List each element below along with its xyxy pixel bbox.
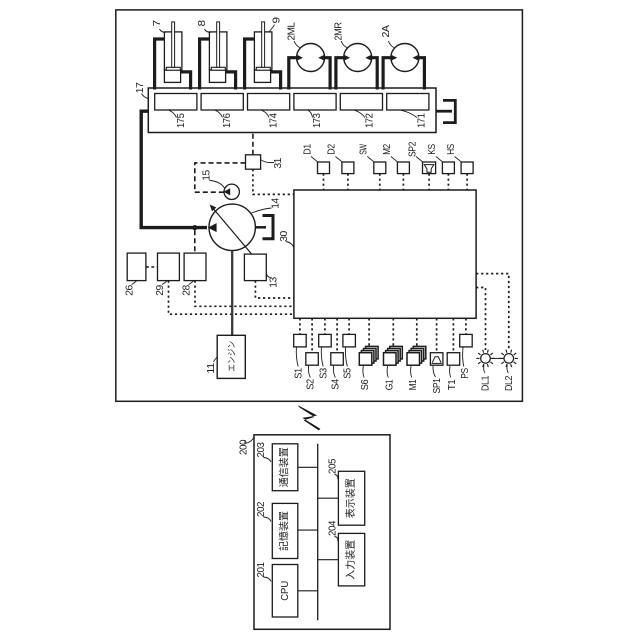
device D1 box: [318, 162, 330, 174]
svg-text:26: 26: [123, 285, 135, 296]
device SP2 box: [423, 162, 436, 174]
signal line valve31 to controller 30 (dotted): [253, 169, 294, 194]
motor 2ML left arrowhead: [296, 55, 303, 61]
sensor S3 box: [319, 334, 332, 347]
label D1 leader: [311, 157, 318, 163]
label S1 leader: [296, 347, 298, 366]
cylinder 7 bottom-side hose (thick): [180, 72, 190, 90]
svg-text:2A: 2A: [380, 25, 392, 38]
bus link CPU: [298, 590, 318, 592]
signal line 28 to controller (dotted): [195, 281, 294, 307]
label 11 leader: [214, 357, 218, 363]
motor 2A circle: [391, 44, 419, 72]
svg-text:S1: S1: [293, 368, 305, 379]
signal line PS from controller (dotted): [465, 318, 467, 334]
pump 14 tank line (thick): [255, 226, 266, 229]
valve 173: [294, 94, 336, 111]
controller 30 box: [294, 190, 476, 318]
svg-text:KS: KS: [426, 144, 438, 155]
pump 14 swash-plate arrowhead: [210, 205, 217, 212]
label 28 leader: [189, 281, 194, 285]
svg-text:DL1: DL1: [480, 375, 492, 391]
label 15 leader: [210, 181, 225, 189]
main pump 14 circle: [209, 204, 255, 250]
svg-text:17: 17: [134, 82, 146, 93]
svg-text:S3: S3: [318, 368, 330, 379]
signal line 29 to controller (dotted): [169, 281, 294, 315]
svg-text:31: 31: [272, 158, 284, 169]
svg-text:201: 201: [255, 562, 267, 578]
label 30 leader: [286, 242, 294, 248]
svg-text:175: 175: [175, 113, 187, 128]
main supply line pump-to-valve-unit (thick): [141, 111, 207, 227]
cylinder 9 barrel: [254, 32, 272, 70]
svg-text:203: 203: [255, 442, 267, 458]
control valve unit 17 body: [148, 88, 436, 133]
label 2MR leader: [341, 41, 348, 48]
wireless link lightning bolt: [298, 405, 321, 430]
cylinder 7 rod-side hose (thick): [155, 39, 165, 90]
svg-text:PS: PS: [459, 368, 471, 379]
svg-text:SP2: SP2: [406, 141, 418, 157]
regulator 13 box: [244, 254, 266, 281]
label M2 leader: [391, 157, 398, 163]
label PS leader: [463, 348, 464, 367]
svg-text:2MR: 2MR: [333, 22, 345, 41]
svg-text:205: 205: [327, 458, 339, 474]
label 2ML leader: [294, 41, 301, 48]
sensor S5 box: [343, 334, 356, 347]
cylinder 9 lower chamber: [254, 70, 270, 82]
label 172 leader: [354, 110, 365, 117]
svg-text:S2: S2: [305, 379, 317, 390]
motor 2ML left hose (thick): [289, 58, 297, 90]
svg-text:SP1: SP1: [431, 378, 443, 394]
svg-text:記憶装置: 記憶装置: [278, 511, 291, 551]
cylinder 8 piston: [211, 67, 225, 70]
label 17 leader: [142, 94, 149, 99]
junction node on supply line: [192, 225, 197, 230]
sensor group M1 stacked boxes: [407, 346, 426, 365]
device SW box: [374, 162, 386, 174]
management apparatus 200 outer box: [254, 435, 390, 630]
svg-text:28: 28: [180, 285, 192, 296]
svg-text:174: 174: [268, 113, 280, 128]
signal line S5 from controller (dotted): [348, 318, 350, 334]
lamp DL2 rays: [500, 350, 518, 367]
label KS leader: [436, 157, 443, 163]
cylinder 8 lower chamber: [209, 70, 225, 82]
label DL1 leader: [484, 365, 485, 374]
lamp DL2 circle: [504, 354, 514, 364]
sensor S4 box: [331, 353, 344, 366]
label 204 leader: [335, 537, 338, 542]
signal line DL2 from controller right edge (dotted): [476, 274, 509, 350]
signal line S3 from controller (dotted): [324, 318, 326, 334]
solenoid valve 31 box: [246, 155, 261, 169]
svg-text:D1: D1: [301, 144, 313, 155]
link line DL1-DL2: [490, 357, 504, 359]
signal line T1 from controller (dotted): [452, 318, 454, 352]
valve 174: [248, 94, 290, 111]
device HS box: [461, 162, 473, 174]
label 8 leader: [205, 29, 211, 33]
label 175 leader: [169, 110, 177, 117]
svg-text:176: 176: [221, 113, 233, 128]
signal line D2 to controller (dotted): [347, 174, 349, 190]
cylinder 9 piston rod: [262, 22, 265, 67]
bus link display: [318, 497, 339, 499]
motor 2MR left hose (thick): [336, 58, 344, 90]
label 2A leader: [388, 41, 395, 48]
svg-text:14: 14: [270, 198, 282, 209]
label SP1 leader: [433, 366, 436, 377]
tank symbol right of valve unit: [443, 100, 455, 122]
label 201 leader: [264, 577, 272, 582]
bus link input: [318, 559, 339, 561]
svg-text:D2: D2: [326, 144, 338, 155]
link 26-29 (dashed): [146, 266, 158, 268]
label SP2 leader: [416, 157, 423, 163]
internal bus line: [317, 444, 319, 621]
label M1 leader: [411, 366, 412, 378]
svg-text:8: 8: [196, 20, 208, 27]
motor 2MR left arrowhead: [344, 55, 351, 61]
input device 204 box: [338, 533, 364, 586]
pilot line junction to box 28 (dashed): [194, 230, 196, 253]
box 28: [184, 253, 206, 281]
motor 2A left arrowhead: [391, 55, 398, 61]
cylinder 7 lower chamber: [164, 70, 180, 82]
cylinder 9 rod-side hose (thick): [245, 39, 255, 90]
svg-text:通信装置: 通信装置: [278, 447, 291, 487]
label 171 leader: [401, 110, 417, 117]
svg-text:G1: G1: [383, 379, 395, 390]
pilot pump 15 inlet arrowhead: [224, 188, 231, 195]
motor 2A left hose (thick): [383, 58, 391, 90]
cylinder 9 bottom-side hose (thick): [270, 72, 280, 90]
label 7 leader: [160, 29, 166, 33]
signal line SP1 from controller (dotted): [436, 318, 438, 352]
motor 2A right hose (thick): [419, 58, 425, 90]
motor 2MR right hose (thick): [372, 58, 378, 90]
label 9 leader: [269, 25, 275, 33]
signal line M2 to controller (dotted): [402, 174, 404, 190]
cylinder 8 rod-side hose (thick): [200, 39, 210, 90]
label T1 leader: [450, 366, 451, 378]
motor 2MR right arrowhead: [365, 55, 372, 61]
lamp DL1 circle: [481, 354, 491, 364]
bus link storage: [298, 529, 318, 531]
motor 2A right arrowhead: [413, 55, 420, 61]
svg-text:173: 173: [311, 113, 323, 128]
label S4 leader: [333, 366, 335, 378]
svg-text:入力装置: 入力装置: [344, 540, 357, 580]
svg-text:M2: M2: [381, 144, 393, 155]
svg-text:11: 11: [205, 363, 217, 374]
label S3 leader: [321, 347, 323, 366]
svg-text:172: 172: [364, 113, 376, 128]
label 174 leader: [262, 110, 270, 117]
SP1 bell icon: [432, 357, 442, 364]
svg-text:CPU: CPU: [279, 581, 291, 601]
drive shaft pump-to-engine: [231, 251, 233, 336]
cylinder 7 piston rod: [172, 22, 175, 67]
sensor PS box: [460, 334, 473, 347]
signal line S1 from controller (dotted): [299, 318, 301, 334]
device D2 box: [342, 162, 354, 174]
communication device 203 box: [272, 444, 298, 491]
cylinder 7 barrel: [164, 32, 182, 70]
label 205 leader: [335, 475, 338, 480]
label 29 leader: [162, 281, 167, 285]
svg-text:S6: S6: [359, 379, 371, 390]
cylinder 8 piston rod: [217, 22, 220, 67]
label 173 leader: [308, 110, 313, 117]
svg-text:171: 171: [416, 113, 428, 128]
svg-text:202: 202: [255, 501, 267, 517]
svg-text:DL2: DL2: [503, 375, 515, 391]
svg-text:表示装置: 表示装置: [344, 478, 357, 518]
label S5 leader: [345, 347, 347, 366]
motor 2ML right hose (thick): [324, 58, 330, 90]
svg-text:200: 200: [238, 439, 250, 455]
sensor S1 box: [294, 334, 307, 347]
signal line 13 to controller (dotted): [255, 281, 294, 298]
svg-text:15: 15: [201, 170, 213, 181]
signal line KS to controller (dotted): [447, 174, 449, 190]
SP2 buzzer icon: [424, 165, 434, 173]
bus link communication: [298, 466, 318, 468]
svg-text:S5: S5: [342, 368, 354, 379]
label S2 leader: [308, 366, 310, 378]
device KS box: [442, 162, 454, 174]
lamp DL1 rays: [476, 350, 494, 367]
cylinder 8 barrel: [209, 32, 227, 70]
label 200 leader: [245, 438, 254, 444]
motor 2ML circle: [297, 44, 325, 72]
cylinder 9 piston: [256, 67, 270, 70]
signal line HS to controller (dotted): [466, 174, 468, 190]
motor 2MR circle: [344, 44, 372, 72]
svg-text:9: 9: [270, 17, 282, 24]
display device 205 box: [338, 471, 364, 525]
CPU 201 box: [272, 565, 298, 618]
sensor T1 box: [447, 353, 460, 366]
signal line S4 from controller (dotted): [336, 318, 338, 352]
engine 11 box: [217, 335, 245, 378]
svg-text:29: 29: [154, 285, 166, 296]
signal line D1 to controller (dotted): [323, 174, 325, 190]
label D2 leader: [335, 157, 342, 163]
svg-text:SW: SW: [358, 144, 370, 155]
svg-text:S4: S4: [330, 379, 342, 390]
label DL2 leader: [507, 365, 508, 374]
label HS leader: [455, 157, 462, 163]
sensor S2 box: [306, 353, 319, 366]
signal line G1 from controller (dotted): [392, 318, 394, 347]
pilot line valve31 to pilot pump 15 (dashed): [195, 163, 246, 192]
label S6 leader: [363, 366, 364, 378]
signal line S6 from controller (dotted): [368, 318, 370, 347]
svg-text:HS: HS: [445, 144, 457, 155]
cylinder 7 piston: [166, 67, 180, 70]
label 202 leader: [264, 517, 272, 522]
frame of upper schematic (excavator hydraulic system): [116, 10, 523, 401]
pump 14 swash-plate diagonal line: [211, 206, 254, 257]
signal line S2 from controller (dotted): [311, 318, 313, 352]
storage device 202 box: [272, 503, 298, 558]
valve 176: [201, 94, 243, 111]
label 13 leader: [267, 273, 271, 278]
valve 171: [387, 94, 429, 111]
svg-text:2ML: 2ML: [286, 22, 298, 41]
svg-text:7: 7: [151, 20, 163, 27]
label G1 leader: [387, 366, 388, 378]
box 29: [158, 253, 180, 281]
cylinder 8 bottom-side hose (thick): [225, 72, 235, 90]
device M2 box: [397, 162, 409, 174]
valve 175: [155, 94, 197, 111]
label 203 leader: [264, 458, 272, 463]
label 176 leader: [215, 110, 222, 117]
svg-text:204: 204: [327, 520, 339, 536]
svg-text:M1: M1: [407, 379, 419, 390]
label SW leader: [367, 157, 374, 163]
motor 2ML right arrowhead: [318, 55, 325, 61]
pilot line valve31 to valve unit (dashed): [252, 133, 254, 155]
valve 172: [340, 94, 382, 111]
label 31 leader: [261, 160, 274, 163]
sensor group G1 stacked boxes: [384, 346, 403, 365]
label 14 leader: [252, 208, 272, 213]
svg-text:T1: T1: [446, 379, 458, 390]
svg-text:エンジン: エンジン: [226, 341, 236, 372]
sensor group S6 stacked boxes: [359, 346, 378, 365]
svg-text:30: 30: [278, 231, 290, 242]
svg-text:13: 13: [268, 277, 280, 288]
signal line DL1 from controller right edge (dotted): [476, 288, 485, 351]
sensor SP1 box: [430, 353, 443, 366]
tank line from valve unit (thick): [436, 110, 452, 113]
pump 14 inlet arrowhead: [208, 223, 217, 232]
box 26: [127, 253, 146, 281]
signal line M1 from controller (dotted): [416, 318, 418, 347]
signal line SW to controller (dotted): [379, 174, 381, 190]
label 26 leader: [132, 281, 137, 285]
tank symbol right of pump 14: [263, 216, 274, 239]
signal line SP2 to controller (dotted): [428, 174, 430, 190]
pilot pump 15 circle: [224, 184, 239, 199]
